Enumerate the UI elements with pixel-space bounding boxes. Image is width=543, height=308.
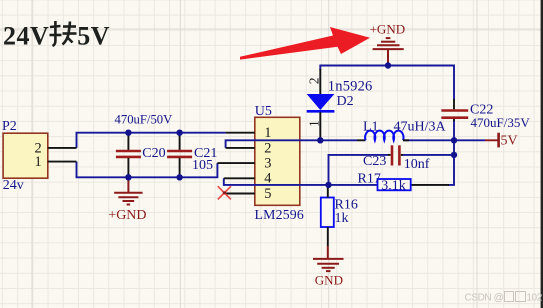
node feedback junction bbox=[325, 182, 331, 188]
power port 5V bbox=[485, 133, 499, 148]
wire output node down to R17 row bbox=[448, 140, 454, 185]
inductor L1 bbox=[357, 131, 409, 141]
svg-text:10nf: 10nf bbox=[404, 157, 430, 172]
svg-text:1: 1 bbox=[35, 154, 42, 170]
svg-text:3.1k: 3.1k bbox=[381, 178, 406, 193]
op-amp U1 : IC U5 LM2596 body bbox=[255, 117, 300, 205]
capacitor C20 bbox=[116, 133, 141, 178]
wire top diode to GND and C22 bbox=[320, 66, 454, 101]
svg-text:5V: 5V bbox=[501, 134, 518, 149]
no-ERC marker X on pin 5 bbox=[218, 186, 231, 199]
svg-text:C20: C20 bbox=[142, 146, 165, 161]
node top rail / C21 bbox=[176, 130, 182, 136]
capacitor C23 bbox=[388, 145, 403, 165]
node diode / output wire bbox=[317, 137, 323, 143]
svg-text:24v: 24v bbox=[3, 178, 24, 193]
node top rail / C20 bbox=[125, 130, 131, 136]
svg-text:5: 5 bbox=[264, 186, 271, 202]
svg-text:U5: U5 bbox=[255, 104, 272, 119]
wire C22 bottom to node bbox=[453, 120, 455, 140]
svg-text:D2: D2 bbox=[337, 94, 354, 109]
ground symbol +GND below C20 bbox=[114, 177, 142, 204]
pin 1 stub U5 bbox=[226, 132, 255, 134]
title 24V转5V bbox=[3, 19, 110, 52]
svg-text:2: 2 bbox=[264, 140, 271, 156]
svg-text:C23: C23 bbox=[363, 154, 386, 169]
svg-text:1n5926: 1n5926 bbox=[328, 79, 373, 95]
wire U5 pin4 riser and feedback wire bbox=[224, 178, 378, 185]
svg-text:L1: L1 bbox=[363, 119, 379, 134]
resistor R17 bbox=[378, 179, 411, 190]
svg-text:R17: R17 bbox=[358, 172, 381, 187]
wire U5 pin2 riser and mid output wire bbox=[226, 140, 357, 148]
connector P2 body bbox=[3, 133, 48, 178]
node top wire / GND lead bbox=[385, 62, 391, 68]
svg-text:470uF/50V: 470uF/50V bbox=[115, 113, 174, 127]
svg-text:+GND: +GND bbox=[370, 22, 406, 37]
watermark bbox=[465, 291, 542, 304]
no-ERC marker center dot bbox=[223, 191, 226, 194]
wire bottom rail P2 pin1 to U5 pin3 bbox=[77, 162, 218, 178]
wire top rail P2 to U5 pin1 bbox=[77, 133, 226, 148]
node output / C22 bbox=[451, 137, 457, 143]
svg-text:470uF/35V: 470uF/35V bbox=[471, 115, 531, 130]
diode D2 1n5926 bbox=[307, 69, 335, 140]
pin 1 stub P2 bbox=[48, 161, 77, 163]
svg-text:47uH/3A: 47uH/3A bbox=[394, 119, 447, 134]
capacitor C22 bbox=[441, 99, 468, 121]
pin 2 stub U5 bbox=[226, 147, 255, 149]
svg-text:3: 3 bbox=[264, 156, 271, 172]
svg-text:1k: 1k bbox=[335, 211, 349, 226]
node bottom rail / C20 bbox=[125, 174, 131, 180]
wire C23 row left bbox=[329, 155, 389, 185]
svg-text:4: 4 bbox=[264, 171, 271, 187]
svg-text:105: 105 bbox=[192, 158, 213, 173]
pin 2 stub P2 bbox=[48, 147, 77, 149]
pin 5 stub U5 bbox=[225, 193, 255, 195]
ground symbol GND below R16 bbox=[313, 246, 344, 271]
pin 4 stub U5 bbox=[224, 177, 255, 179]
junction node dots bbox=[125, 62, 457, 188]
wire R17 right lead bbox=[411, 184, 449, 186]
screenshot right edge dark strip bbox=[541, 0, 543, 308]
pin 3 stub U5 bbox=[217, 162, 254, 164]
wire L1 right to output node bbox=[403, 139, 454, 141]
svg-text:LM2596: LM2596 bbox=[255, 207, 305, 222]
svg-text:1: 1 bbox=[307, 120, 322, 127]
red annotation arrow bbox=[240, 27, 370, 60]
capacitor C21 bbox=[167, 133, 192, 178]
resistor R16 bbox=[321, 185, 334, 246]
svg-text:P2: P2 bbox=[2, 119, 17, 134]
wire C23 row right bbox=[402, 154, 454, 156]
svg-text:2: 2 bbox=[306, 78, 321, 85]
node bottom rail / C21 bbox=[176, 174, 182, 180]
node C23 / right riser bbox=[451, 152, 457, 158]
svg-text:+GND: +GND bbox=[108, 208, 146, 223]
ground symbol +GND top bbox=[373, 38, 404, 65]
svg-text:GND: GND bbox=[315, 273, 343, 288]
svg-text:1: 1 bbox=[264, 125, 271, 141]
wire node to 5V port bbox=[454, 139, 485, 141]
